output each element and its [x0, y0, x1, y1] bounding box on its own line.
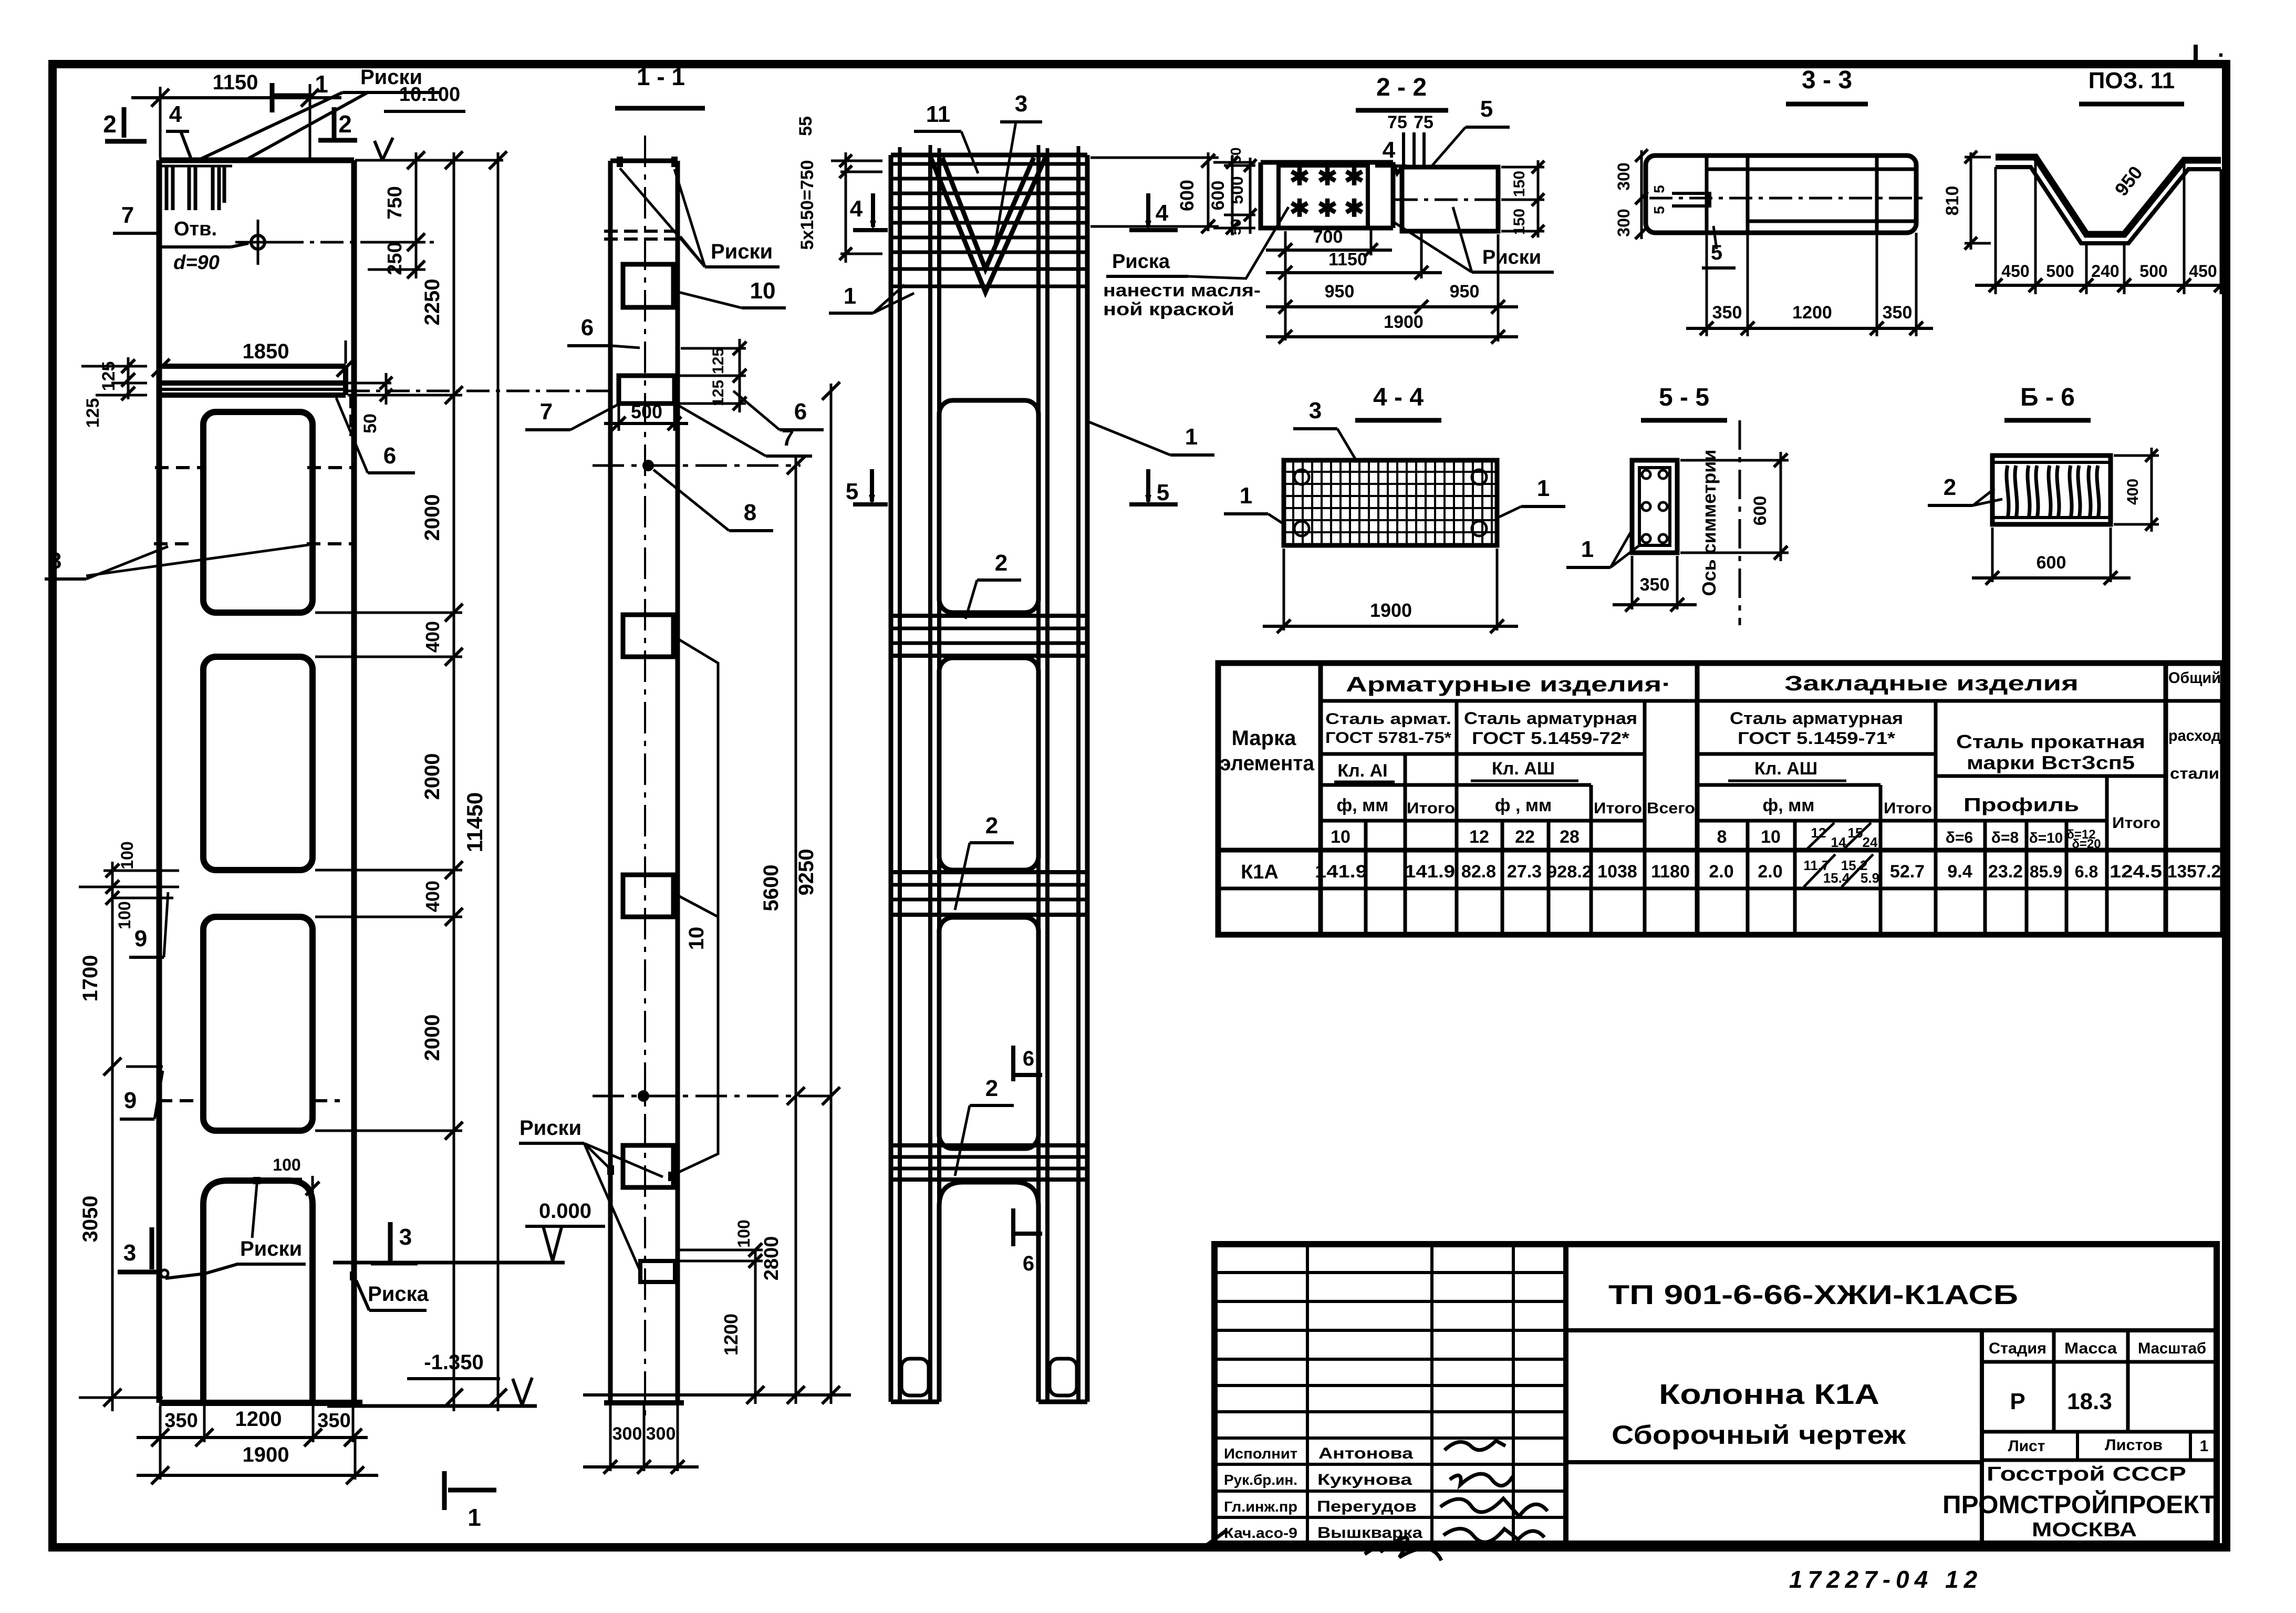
pos 11 dim 810	[1942, 151, 1991, 250]
svg-text:5: 5	[1480, 96, 1493, 122]
6-6 dim 600	[1972, 528, 2131, 585]
section mark 2 top-left	[103, 107, 147, 141]
risk marks y2095	[159, 1099, 340, 1102]
svg-text:1700: 1700	[79, 955, 102, 1002]
2-2 anchor plate	[1279, 163, 1368, 228]
svg-text:Итого: Итого	[2112, 814, 2160, 832]
dimension 100 100 marks left	[79, 841, 179, 929]
middle riski lower	[519, 1116, 675, 1271]
label 1 5-5	[1566, 532, 1639, 567]
table horizontal lines	[1218, 701, 2223, 888]
third view opening 2	[939, 658, 1038, 870]
title block signature rows	[1214, 1273, 1566, 1517]
svg-text:2: 2	[1944, 474, 1956, 500]
svg-text:810: 810	[1942, 186, 1962, 216]
svg-text:5 - 5: 5 - 5	[1659, 384, 1709, 411]
hole Otv d=90	[235, 220, 436, 265]
svg-text:350: 350	[1883, 303, 1913, 323]
5-5 dim 600	[1680, 452, 1789, 561]
chain 9250	[795, 382, 840, 1404]
table outer frame	[1218, 663, 2223, 935]
svg-text:Риски: Риски	[240, 1237, 302, 1260]
dimension 1150 top	[131, 71, 341, 158]
svg-text:✱: ✱	[1290, 194, 1310, 222]
svg-text:9: 9	[124, 1088, 137, 1113]
svg-text:ГОСТ 5.1459-72*: ГОСТ 5.1459-72*	[1472, 729, 1630, 748]
svg-text:3 - 3: 3 - 3	[1802, 66, 1852, 94]
title block names	[1224, 1445, 1422, 1542]
table header kl A1	[1334, 761, 1395, 782]
2-2 center axis	[1395, 199, 1513, 201]
svg-text:27.3: 27.3	[1507, 862, 1542, 882]
svg-text:1900: 1900	[243, 1443, 289, 1466]
doc number cell	[1566, 1280, 2217, 1330]
svg-text:Кукунова: Кукунова	[1317, 1471, 1412, 1488]
svg-text:1200: 1200	[1792, 303, 1832, 323]
svg-text:22: 22	[1515, 827, 1535, 847]
svg-text:2: 2	[338, 110, 352, 138]
table header armatura	[1346, 673, 1671, 696]
svg-text:18.3: 18.3	[2067, 1389, 2112, 1414]
svg-text:500: 500	[631, 401, 662, 422]
section title 4-4	[1355, 384, 1441, 420]
svg-text:Профиль: Профиль	[1963, 794, 2079, 815]
svg-text:8: 8	[49, 548, 61, 574]
svg-text:1900: 1900	[1370, 599, 1412, 621]
hidden edge dash	[349, 396, 352, 436]
svg-text:МОСКВА: МОСКВА	[2032, 1519, 2137, 1541]
svg-text:δ=8: δ=8	[1991, 829, 2019, 846]
label 10	[679, 278, 786, 308]
svg-text:2000: 2000	[421, 753, 444, 800]
svg-text:Риски: Риски	[1482, 246, 1541, 268]
label 5 2-2	[1431, 96, 1510, 167]
svg-text:1 - 1: 1 - 1	[637, 63, 685, 90]
section title 3-3	[1786, 66, 1868, 104]
risk marks y1035	[154, 542, 352, 545]
svg-text:1357.2: 1357.2	[2167, 862, 2221, 882]
svg-text:0.000: 0.000	[539, 1200, 591, 1223]
svg-text:2: 2	[985, 1076, 998, 1101]
label 8 left	[45, 545, 309, 579]
3-3 left dims	[1614, 149, 1667, 239]
middle view top risk marks	[617, 157, 678, 167]
svg-text:12: 12	[1469, 827, 1489, 847]
svg-text:600: 600	[1750, 496, 1770, 526]
svg-text:Кач.асо-9: Кач.асо-9	[1224, 1525, 1297, 1541]
svg-text:Сталь армат.: Сталь армат.	[1325, 710, 1451, 728]
stage mass scale header	[1982, 1330, 2217, 1544]
svg-text:11: 11	[926, 101, 951, 127]
extension top line right	[355, 159, 503, 162]
label 2 b	[955, 813, 1014, 910]
svg-text:928.2: 928.2	[1547, 862, 1592, 881]
svg-text:Общий: Общий	[2168, 669, 2221, 687]
svg-text:10: 10	[685, 927, 708, 950]
label 2 a	[965, 550, 1021, 619]
svg-text:✱: ✱	[1317, 163, 1338, 190]
riska label bottom right	[350, 1271, 429, 1310]
svg-text:4: 4	[850, 196, 863, 222]
svg-text:52.7: 52.7	[1890, 862, 1925, 882]
svg-text:11450: 11450	[462, 792, 487, 852]
svg-text:55: 55	[796, 116, 816, 136]
svg-text:28: 28	[1560, 827, 1580, 847]
embedded item 10 sq2	[623, 615, 673, 657]
third view opening 4	[939, 1182, 1038, 1402]
svg-text:Кл. АI: Кл. АI	[1337, 761, 1387, 781]
svg-text:1: 1	[467, 1504, 481, 1531]
svg-text:2.0: 2.0	[1758, 862, 1782, 882]
svg-text:ф, мм: ф, мм	[1763, 795, 1815, 815]
svg-text:4 - 4: 4 - 4	[1373, 384, 1424, 411]
svg-text:50: 50	[1228, 219, 1244, 235]
svg-text:Закладные изделия: Закладные изделия	[1784, 672, 2079, 695]
corbel axis dash-dot	[347, 390, 608, 392]
svg-text:400: 400	[422, 881, 443, 912]
table data row K1A	[1241, 854, 2221, 887]
moscow text	[2032, 1519, 2137, 1541]
table header f mm 3	[1763, 795, 1815, 815]
svg-text:9: 9	[134, 926, 147, 952]
label 7 mid	[525, 399, 620, 430]
middle lower stub	[640, 1261, 675, 1282]
svg-text:1200: 1200	[235, 1408, 282, 1431]
section 3-3 outline	[1646, 156, 1916, 233]
svg-text:600: 600	[2037, 553, 2066, 573]
svg-text:Отв.: Отв.	[174, 218, 217, 240]
institute name	[1942, 1490, 2216, 1519]
svg-text:ф, мм: ф, мм	[1337, 795, 1389, 815]
svg-text:75: 75	[1387, 112, 1407, 132]
embedded item 10 sq4	[623, 1145, 673, 1187]
svg-text:5: 5	[1651, 206, 1667, 214]
svg-text:500: 500	[2046, 262, 2074, 281]
2-2 left dims	[1208, 147, 1256, 235]
section 4-4 mesh body	[1284, 460, 1497, 545]
label 11	[914, 101, 978, 173]
left view column outline	[159, 160, 362, 1403]
bent bar V pos11	[931, 158, 1045, 292]
svg-text:350: 350	[317, 1410, 350, 1432]
svg-text:5: 5	[846, 479, 858, 504]
label 8 middle	[653, 470, 773, 531]
section title 6-6	[2004, 384, 2091, 420]
level -1.350	[327, 1351, 537, 1406]
left view opening 3	[203, 917, 313, 1131]
svg-text:8: 8	[1717, 827, 1727, 847]
svg-text:400: 400	[422, 621, 443, 653]
chain 750 250	[368, 151, 425, 278]
third view top stirrups	[891, 164, 1087, 286]
section title 2-2	[1356, 74, 1448, 110]
section mark 4 left	[850, 193, 888, 230]
svg-text:1038: 1038	[1597, 862, 1637, 882]
svg-text:600: 600	[1176, 180, 1198, 211]
2-2 notch	[1393, 162, 1402, 173]
embedded item 10 sq3	[623, 875, 673, 917]
svg-text:50: 50	[360, 413, 380, 433]
svg-text:ной краской: ной краской	[1103, 299, 1234, 319]
svg-text:8: 8	[744, 500, 756, 525]
svg-text:1: 1	[1581, 536, 1594, 562]
svg-text:1150: 1150	[213, 71, 258, 94]
dimension 1850 corbel	[152, 340, 355, 377]
svg-text:500: 500	[2139, 262, 2167, 281]
svg-text:3: 3	[399, 1224, 412, 1250]
svg-text:450: 450	[2001, 262, 2029, 281]
label 2 6-6	[1928, 474, 2002, 505]
label 6 left view	[336, 398, 415, 473]
svg-text:100: 100	[734, 1219, 753, 1247]
svg-text:600: 600	[1208, 181, 1228, 211]
title block frame	[1214, 1244, 2217, 1544]
svg-text:350: 350	[1712, 303, 1742, 323]
svg-text:d=90: d=90	[173, 252, 220, 274]
signatures scrawl	[1203, 1441, 1547, 1560]
middle bottom dim line	[583, 1393, 851, 1397]
pos 11 bent bar	[1996, 157, 2221, 243]
label 1 4-4 right	[1499, 475, 1565, 517]
svg-text:10: 10	[1761, 827, 1781, 847]
svg-text:Антонова: Антонова	[1318, 1445, 1413, 1462]
svg-text:Риска: Риска	[1112, 251, 1170, 273]
svg-text:Риски: Риски	[711, 240, 773, 263]
svg-text:950: 950	[1450, 282, 1480, 302]
section mark 1 top	[272, 70, 328, 112]
svg-text:3: 3	[1015, 91, 1027, 117]
table header zakladnye	[1784, 672, 2079, 695]
svg-text:9.4: 9.4	[1947, 862, 1972, 882]
svg-text:6.8: 6.8	[2075, 862, 2098, 881]
elevation 10.100	[375, 84, 465, 160]
label 2 c	[955, 1076, 1014, 1176]
label 1 right	[1089, 422, 1214, 455]
2-2 right dims 150	[1501, 160, 1544, 237]
svg-text:Итого: Итого	[1884, 800, 1932, 817]
svg-text:350: 350	[1640, 575, 1670, 595]
third view rebar verticals	[900, 155, 1078, 1402]
svg-text:нанести масля-: нанести масля-	[1103, 281, 1261, 301]
svg-text:Гл.инж.пр: Гл.инж.пр	[1224, 1498, 1297, 1515]
svg-text:2: 2	[995, 550, 1007, 576]
svg-text:.: .	[2218, 36, 2224, 62]
level 0.000	[333, 1200, 605, 1263]
svg-text:δ=6: δ=6	[1946, 829, 1973, 846]
svg-text:Арматурные изделия·: Арматурные изделия·	[1346, 673, 1671, 696]
svg-text:400: 400	[2124, 479, 2142, 505]
cross band 2	[891, 872, 1087, 915]
svg-text:141.9: 141.9	[1315, 862, 1367, 882]
dim 600 third view	[1090, 152, 1219, 233]
label 4 2-2	[1375, 137, 1407, 166]
svg-text:Риски: Риски	[520, 1116, 581, 1140]
left view anchor dowels	[167, 166, 224, 210]
svg-text:Сталь прокатная: Сталь прокатная	[1956, 731, 2145, 752]
embedded item 10 sq1	[623, 264, 673, 307]
dims 125 125 middle	[678, 339, 746, 412]
dim 100 lower stub	[675, 1219, 763, 1268]
svg-text:7: 7	[540, 399, 553, 425]
svg-text:5: 5	[1157, 480, 1169, 505]
section mark 1 bottom	[444, 1471, 496, 1531]
svg-text:1900: 1900	[1384, 312, 1424, 332]
svg-text:125: 125	[83, 398, 103, 428]
svg-text:3: 3	[123, 1240, 136, 1266]
table header steel zakl	[1730, 709, 1903, 748]
riski label bottom	[161, 1184, 306, 1278]
bottom dim 1900	[137, 1438, 378, 1484]
svg-text:ГОСТ 5.1459-71*: ГОСТ 5.1459-71*	[1738, 729, 1896, 748]
svg-text:Всего: Всего	[1647, 800, 1695, 817]
table vertical lines	[1321, 663, 2166, 935]
svg-text:4: 4	[1156, 200, 1169, 226]
svg-text:300: 300	[1614, 162, 1633, 190]
table header profil	[1963, 794, 2079, 815]
svg-text:10: 10	[1331, 827, 1350, 847]
svg-text:Кл. АШ: Кл. АШ	[1492, 759, 1555, 779]
axis line upper with dot	[593, 460, 801, 471]
middle view risk dashes	[604, 231, 683, 239]
svg-text:стали: стали	[2170, 765, 2219, 782]
svg-text:5600: 5600	[760, 865, 783, 912]
svg-text:Сталь арматурная: Сталь арматурная	[1464, 709, 1637, 728]
svg-text:2250: 2250	[421, 279, 444, 326]
svg-text:100: 100	[273, 1155, 300, 1174]
svg-text:2000: 2000	[421, 494, 444, 541]
svg-text:350: 350	[164, 1410, 198, 1432]
svg-text:1: 1	[2200, 1438, 2209, 1455]
section title 5-5	[1641, 384, 1727, 420]
svg-text:Листов: Листов	[2105, 1436, 2163, 1454]
svg-text:✱: ✱	[1290, 163, 1310, 190]
riska note 2-2	[1103, 207, 1289, 319]
3-3 tab	[1672, 193, 1710, 206]
svg-text:Масса: Масса	[2064, 1340, 2117, 1357]
svg-text:1150: 1150	[1328, 250, 1367, 270]
svg-text:500: 500	[1228, 176, 1246, 204]
section mark 3 right	[371, 1222, 418, 1263]
left dim chain 1700 3050	[79, 862, 163, 1411]
svg-text:1: 1	[1537, 475, 1550, 501]
pos 11 bottom dims	[1975, 262, 2228, 292]
section mark 5 right	[1129, 469, 1178, 505]
svg-text:50: 50	[1228, 147, 1244, 163]
handwritten doc code	[1789, 1566, 1982, 1593]
section mark 6 lower	[1013, 1208, 1042, 1275]
svg-text:300: 300	[1614, 209, 1633, 236]
svg-text:ПРОМСТРОЙПРОЕКТ: ПРОМСТРОЙПРОЕКТ	[1942, 1490, 2216, 1519]
left view embedded plate line	[161, 165, 232, 168]
svg-text:6: 6	[1023, 1252, 1034, 1275]
svg-text:Перегудов: Перегудов	[1317, 1498, 1417, 1515]
svg-text:6: 6	[383, 443, 396, 469]
pos 11 label 950	[2111, 162, 2147, 200]
section mark 4 right	[1129, 193, 1178, 230]
section 6-6 body	[1992, 456, 2111, 524]
svg-text:Сборочный чертеж: Сборочный чертеж	[1612, 1420, 1906, 1450]
svg-text:750: 750	[384, 186, 406, 219]
table header itogo 2	[1594, 800, 1642, 817]
svg-text:10: 10	[750, 278, 776, 304]
sheet number 1 top right	[2196, 36, 2224, 65]
chain 1200 middle	[720, 1250, 764, 1404]
middle corbel stub	[604, 376, 688, 431]
table header vsego	[1647, 800, 1695, 817]
svg-text:6: 6	[794, 399, 807, 425]
svg-text:расход: расход	[2168, 727, 2221, 745]
third view opening 3	[939, 917, 1038, 1149]
label 9 upper	[129, 892, 168, 957]
svg-text:2800: 2800	[761, 1236, 783, 1281]
svg-text:2 - 2: 2 - 2	[1376, 74, 1427, 101]
riski label 2-2	[1391, 207, 1554, 272]
svg-text:элемента: элемента	[1220, 752, 1315, 775]
middle view outline	[604, 161, 684, 1403]
label Otv. d=90	[158, 218, 248, 274]
label 4 top	[166, 101, 191, 158]
svg-text:7: 7	[121, 202, 134, 228]
svg-text:2000: 2000	[421, 1015, 444, 1061]
bottom dims 350 1200 350	[137, 1403, 368, 1446]
list row	[1982, 1432, 2217, 1460]
svg-text:9250: 9250	[795, 849, 818, 896]
section 5-5 body	[1632, 460, 1677, 553]
svg-text:250: 250	[384, 242, 406, 275]
left view opening 2	[203, 657, 313, 870]
pos 11 title	[2079, 68, 2184, 104]
svg-text:1850: 1850	[243, 340, 289, 363]
svg-text:Марка: Марка	[1232, 727, 1297, 750]
cross band 1	[891, 616, 1087, 656]
svg-text:ПОЗ. 11: ПОЗ. 11	[2089, 68, 2175, 94]
svg-text:ф , мм: ф , мм	[1495, 795, 1552, 815]
svg-text:100: 100	[115, 901, 134, 929]
section mark 3 left	[118, 1227, 160, 1272]
label 5 3-3	[1702, 226, 1736, 268]
label 6 middle right	[733, 391, 824, 430]
svg-text:75: 75	[1414, 112, 1433, 132]
table header steel A3	[1464, 709, 1637, 748]
svg-text:Кл. АШ: Кл. АШ	[1754, 759, 1817, 779]
svg-text:1: 1	[315, 70, 328, 98]
svg-text:К1А: К1А	[1241, 861, 1279, 883]
section title 1-1	[615, 63, 705, 108]
svg-text:950: 950	[1325, 282, 1355, 302]
cross band 3	[891, 1145, 1087, 1180]
svg-text:141.9: 141.9	[1405, 862, 1455, 882]
svg-text:2.0: 2.0	[1709, 862, 1733, 882]
svg-text:124.5: 124.5	[2110, 862, 2162, 882]
svg-text:5: 5	[1651, 185, 1667, 193]
svg-text:1: 1	[1185, 424, 1198, 450]
svg-text:450: 450	[2189, 262, 2217, 281]
chain 11450	[462, 151, 507, 1411]
table header f mm 1	[1337, 795, 1389, 815]
table header marka	[1220, 727, 1315, 775]
svg-text:δ=10: δ=10	[2029, 830, 2063, 846]
label 7 left	[113, 202, 161, 365]
svg-text:2: 2	[103, 110, 117, 138]
chain 2250 2000 400	[315, 151, 463, 1411]
svg-text:✱: ✱	[1317, 194, 1338, 222]
svg-text:5.9: 5.9	[1861, 870, 1879, 886]
label 3 4-4	[1293, 398, 1357, 462]
svg-text:85.9: 85.9	[2030, 862, 2062, 881]
label 9 lower	[120, 1071, 163, 1119]
svg-text:Исполнит: Исполнит	[1224, 1445, 1297, 1462]
5-5 dim 350	[1613, 556, 1697, 612]
